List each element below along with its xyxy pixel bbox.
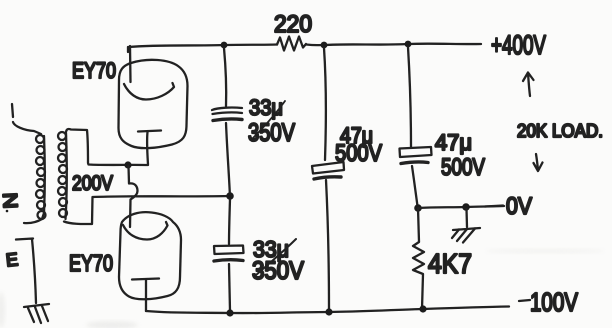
- tube V1 cathode bar: [138, 131, 161, 132]
- svg-text:E: E: [5, 249, 19, 270]
- arrow down (load): [534, 154, 543, 171]
- capacitor C3 47u 500V plates: [312, 162, 344, 174]
- capacitor C1 line down to mid junction: [226, 123, 230, 193]
- svg-text:N: N: [0, 192, 21, 209]
- stroke through labels (pen slash C1): [251, 101, 285, 140]
- wire secondary bottom tap to doubler mid: [64, 196, 229, 224]
- wire 0V rail: [418, 206, 504, 208]
- capacitor C1 line from top rail: [224, 48, 226, 106]
- label 0V: [485, 206, 503, 207]
- tube V1 top ellipse arc: [124, 83, 174, 100]
- arrow up (load): [523, 73, 534, 97]
- node junction top C: [405, 41, 412, 48]
- capacitor C2 line to bottom rail: [229, 264, 230, 311]
- resistor R2 4K7: [413, 208, 424, 309]
- svg-text:EY70: EY70: [69, 250, 113, 276]
- wire bottom rail: [146, 307, 509, 314]
- svg-text:+400V: +400V: [491, 30, 546, 60]
- capacitor C1 33u 350V plates: [212, 108, 242, 114]
- capacitor C3 line to bottom rail: [326, 180, 329, 311]
- svg-text:100V: 100V: [530, 287, 579, 317]
- transformer primary winding: [13, 122, 41, 134]
- svg-text:20K LOAD.: 20K LOAD.: [517, 121, 603, 141]
- node junction bottom B: [325, 308, 332, 315]
- tube V1 envelope: [119, 60, 188, 148]
- capacitor C4 line to 0V junction: [412, 166, 418, 206]
- node junction top A: [221, 42, 228, 49]
- label -100V: [519, 300, 530, 301]
- capacitor C3 line from top rail: [324, 48, 326, 160]
- node junction E (doubler mid): [226, 192, 234, 200]
- node junction 0V B: [462, 203, 470, 211]
- tube V1 anode riser wire: [129, 46, 132, 82]
- stroke through labels (pen slash C2): [255, 239, 296, 276]
- wire top rail right segment: [306, 44, 481, 46]
- ground (0V) symbol: [453, 228, 480, 230]
- svg-text:0V: 0V: [506, 193, 532, 220]
- wire secondary top tap to junction: [66, 129, 148, 165]
- tube V2 top ellipse arc: [123, 222, 168, 240]
- node junction bottom C: [419, 305, 426, 312]
- tube V1 cathode lead wire: [146, 132, 149, 165]
- svg-text:500V: 500V: [335, 140, 382, 167]
- resistor 220: [277, 37, 306, 51]
- svg-text:47μ: 47μ: [435, 130, 472, 155]
- svg-text:4K7: 4K7: [428, 248, 472, 279]
- svg-text:200V: 200V: [72, 172, 113, 195]
- node junction D (cathode / doubler mid top): [124, 161, 131, 168]
- capacitor C4 line from top rail: [408, 47, 411, 147]
- tube V2 cathode lead wire to bottom rail: [145, 280, 147, 311]
- node junction 0V A: [414, 204, 422, 212]
- svg-text:350V: 350V: [248, 119, 295, 147]
- tube V2 cathode bar: [132, 279, 159, 280]
- earth ground symbol: [24, 304, 49, 307]
- svg-text:EY70: EY70: [72, 58, 116, 83]
- wire drop to V2 with hop over wire: [129, 166, 138, 227]
- svg-text:33μ: 33μ: [249, 95, 283, 120]
- ground (0V) stub: [465, 209, 468, 227]
- capacitor C2 33u 350V plates: [214, 246, 244, 255]
- transformer secondary winding: [58, 132, 66, 140]
- svg-text:500V: 500V: [441, 154, 485, 181]
- terminal E wire and earth ground: [16, 239, 36, 304]
- svg-text:220: 220: [274, 11, 312, 38]
- capacitor C2 line from mid junction: [229, 199, 230, 244]
- wire top rail left segment: [128, 45, 277, 53]
- node junction top B: [321, 42, 328, 49]
- terminal L: [12, 104, 13, 117]
- tube V2 envelope: [119, 212, 181, 299]
- capacitor C4 47u 500V plates: [400, 147, 432, 157]
- node junction bottom A: [226, 309, 233, 316]
